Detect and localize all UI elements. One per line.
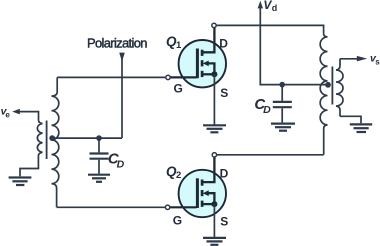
ground (CD right) (271, 124, 295, 131)
wire T1 secondary top to Q1 gate (57, 76, 165, 78)
wire Vd supply vertical (260, 7, 325, 85)
wire Q1 source to ground (213, 74, 215, 124)
transistor Q1 body (179, 40, 226, 87)
Q2 gate bar (196, 178, 199, 208)
wire center tap to polarization corner (52, 137, 122, 139)
wire Q1 drain node to T2 primary top (217, 25, 324, 33)
svg-text:G: G (174, 81, 183, 95)
ground (vs return) (350, 124, 372, 132)
node T2 center tap (junction dot) (325, 82, 331, 88)
node ve-input: label v_e (1, 105, 11, 119)
Q1 drain stub (202, 28, 214, 52)
Q1 body link to source (208, 63, 215, 74)
wire T2 primary bottom to Q2 drain node (217, 154, 324, 156)
label Q1 (166, 34, 182, 51)
Q2 channel segments (201, 180, 204, 207)
Q2 gate lead inside (168, 206, 197, 208)
label Vd (263, 0, 277, 13)
arrow ve (points left toward label) (12, 109, 20, 115)
svg-text:S: S (220, 215, 228, 229)
Q2 source stub (202, 203, 214, 205)
transformer T1 primary winding (37, 120, 42, 168)
capacitor CD (left) (90, 154, 109, 159)
Q1 source stub (202, 73, 214, 75)
wire CD-left to ground (98, 160, 100, 174)
node junction CD-left (96, 135, 102, 141)
wire CD-right to ground (281, 108, 283, 122)
Q1 gate lead inside (168, 76, 197, 78)
transformer T1 secondary winding (52, 77, 59, 207)
node Q1 gate terminal (166, 75, 170, 79)
wire T1 secondary bottom to Q2 gate (57, 206, 165, 208)
node Q2 gate terminal (165, 205, 169, 209)
svg-text:S: S (220, 86, 228, 100)
ground (T1 primary) (9, 178, 32, 186)
Q2 body arrow (203, 190, 209, 196)
svg-text:G: G (173, 213, 182, 227)
svg-text:D: D (117, 158, 125, 170)
svg-text:1: 1 (176, 40, 182, 51)
svg-text:D: D (219, 37, 228, 51)
transformer T2 core (331, 67, 333, 105)
wire vs output (340, 58, 357, 60)
wire ve to T1 primary top (20, 112, 39, 121)
wire T1 primary bottom to ground (20, 169, 39, 177)
node Q2 drain terminal (212, 153, 216, 157)
transformer T1 core (46, 121, 48, 160)
ground (Q1 source) (203, 125, 226, 132)
capacitor CD (right) (273, 102, 292, 107)
label CD (left) (108, 150, 125, 170)
transistor Q2 body (179, 170, 226, 217)
wire polarization vertical (121, 56, 123, 138)
transformer T2 secondary winding (336, 59, 343, 117)
arrow vs (points right) (357, 56, 367, 62)
node junction CD-right (279, 82, 285, 88)
svg-text:s: s (375, 58, 380, 67)
Q1 source junction dot (211, 71, 217, 77)
arrow Vd (points up) (258, 1, 263, 9)
label CD (right) (254, 96, 271, 116)
Q2 source junction dot (211, 201, 217, 207)
Q1 body arrow (203, 61, 209, 67)
ground (Q2 source) (203, 238, 226, 245)
arrow polarization (points down) (119, 53, 125, 62)
transformer T2 primary winding (320, 34, 327, 155)
svg-text:2: 2 (176, 170, 181, 181)
node T1 center tap (junction dot) (49, 135, 55, 141)
wire junction to CD-right (281, 85, 283, 101)
Q2 drain stub (202, 157, 214, 182)
wire junction to CD-left (98, 138, 100, 152)
label vs (370, 53, 380, 67)
Q2 body link to source (208, 193, 215, 204)
node Q1 drain terminal (212, 23, 216, 27)
wire Q2 source to ground (213, 204, 215, 237)
svg-text:Polarization: Polarization (87, 35, 148, 50)
Q1 gate bar (196, 49, 199, 79)
svg-text:d: d (272, 3, 278, 13)
Q1 channel segments (201, 50, 204, 77)
label Q2 (166, 164, 181, 181)
svg-text:e: e (5, 110, 10, 119)
wire T2 secondary bottom to ground (340, 116, 361, 123)
svg-text:D: D (220, 167, 229, 181)
svg-text:D: D (263, 104, 271, 116)
ground (CD left) (88, 175, 110, 182)
